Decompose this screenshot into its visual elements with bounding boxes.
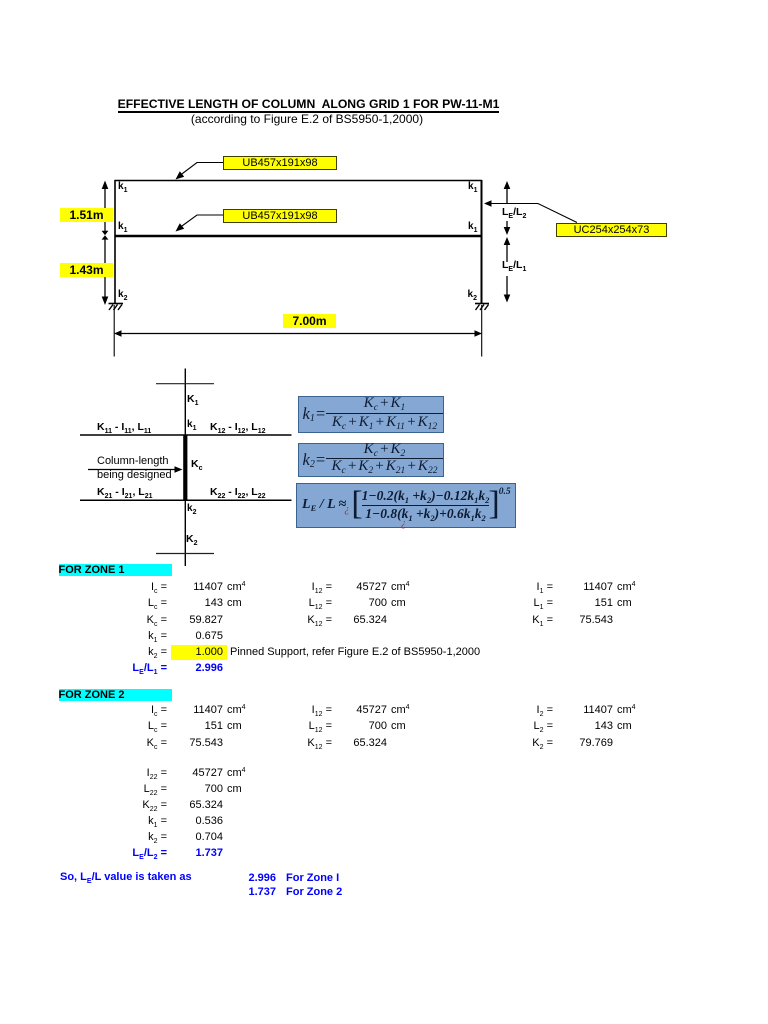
k1 mid-left [118, 221, 127, 232]
zone2 row k1 [107, 815, 167, 827]
zone2 row K22 [107, 799, 167, 811]
label 7.00m [283, 314, 336, 328]
k2 bottom-right [468, 289, 477, 300]
k1 top-left [118, 181, 127, 192]
zone1 row Ic [107, 581, 167, 593]
callout box UC254 right [556, 223, 667, 237]
diagram2 K21 row [97, 486, 152, 498]
zone2 row Kc [107, 737, 167, 749]
zone1 row k1 [107, 630, 167, 642]
k1 top-right [468, 181, 477, 192]
formula box k2 [298, 443, 445, 477]
support right ground + hatch [475, 304, 489, 311]
diagram2 K12 row [210, 421, 265, 433]
callout box UB457 top [223, 156, 337, 170]
subtitle [0, 112, 614, 126]
zone2 row L22 [107, 783, 167, 795]
beam top [115, 180, 483, 182]
diagram 2: column axis [184, 369, 186, 567]
diagram2 Kc [191, 458, 203, 470]
right dim LE/L1 arrows [504, 237, 511, 303]
dimension 1.51m line [102, 181, 109, 236]
zone2 row Ic [107, 704, 167, 716]
formula box LE/L [296, 483, 516, 528]
dimension 1.43m line [102, 235, 109, 305]
summary value zone 2 [166, 886, 276, 898]
diagram 2: designed column thick [183, 435, 187, 501]
support left ground + hatch [109, 304, 124, 311]
k1 mid-right [468, 221, 477, 232]
diagram 2: upper beam line [80, 434, 292, 436]
zone2 row Lc [107, 720, 167, 732]
column-length text line1 [97, 455, 169, 467]
formula box k1 [298, 396, 445, 434]
callout UB457 top [176, 163, 224, 180]
diagram2 K1 [187, 393, 199, 405]
title [0, 99, 617, 110]
zone1 row LE/L1 [107, 662, 167, 674]
zone2 row k2 [107, 831, 167, 843]
right dim LE/L2 arrows [504, 181, 511, 235]
diagram2 k2 [187, 503, 196, 514]
column right [481, 180, 483, 304]
summary value zone 1 [166, 872, 276, 884]
callout UB457 middle [176, 215, 224, 232]
label LE/L1 [502, 259, 526, 271]
diagram2 K2 [186, 533, 198, 545]
dimension 7.00m [114, 305, 482, 357]
column-length text line2 [97, 469, 172, 481]
column left [114, 180, 116, 304]
summary line [60, 871, 192, 883]
diagram 2: bottom tick [156, 553, 214, 555]
diagram 2: top tick [156, 383, 214, 385]
label 1.43m [60, 263, 113, 277]
diagram2 k1 [187, 419, 196, 430]
zone2 row I22 [107, 767, 167, 779]
diagram2 K11 row [97, 421, 151, 433]
zone1 row k2 [107, 646, 167, 658]
diagram 2: lower beam line [80, 499, 292, 501]
callout UC254 right [484, 200, 577, 222]
k2 bottom-left [118, 289, 127, 300]
zone1 row Kc [107, 614, 167, 626]
beam middle [115, 235, 483, 238]
FOR ZONE 2 header [59, 689, 172, 701]
FOR ZONE 1 header [59, 564, 172, 576]
diagram 2: pointer arrow [88, 466, 183, 472]
callout box UB457 middle [223, 209, 337, 223]
label 1.51m [60, 208, 113, 222]
zone2 row LE/L2 [107, 847, 167, 859]
diagram2 K22 row [210, 486, 265, 498]
label LE/L2 [502, 206, 526, 218]
zone1 row Lc [107, 597, 167, 609]
